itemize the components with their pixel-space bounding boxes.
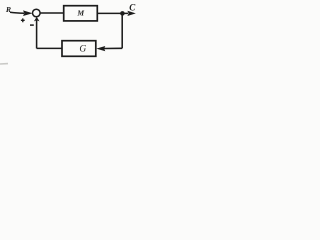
junction dot on output wire [120, 11, 125, 16]
wire feedback up to summing junction [36, 20, 38, 48]
arrowhead into summing junction from below [34, 17, 40, 22]
arrowhead into summing junction [23, 10, 33, 16]
arrowhead into block G [96, 46, 105, 51]
wire summing junction to block M [40, 12, 64, 14]
wire feedback down from junction [121, 13, 123, 48]
block M [64, 6, 98, 21]
arrowhead output C [127, 11, 135, 16]
svg-text:C: C [129, 2, 136, 12]
minus sign at summing junction [30, 24, 34, 26]
wire block M to output C [97, 12, 128, 14]
wire input R to summing junction [10, 12, 24, 13]
block G [62, 41, 96, 57]
summing junction S1 [33, 9, 41, 17]
wire block G output to left [37, 47, 62, 49]
svg-text:M: M [76, 9, 84, 18]
scan smudge bottom left [0, 63, 8, 65]
wire feedback to block G input [104, 47, 122, 49]
plus sign at summing junction [21, 18, 25, 22]
svg-text:G: G [79, 45, 86, 55]
